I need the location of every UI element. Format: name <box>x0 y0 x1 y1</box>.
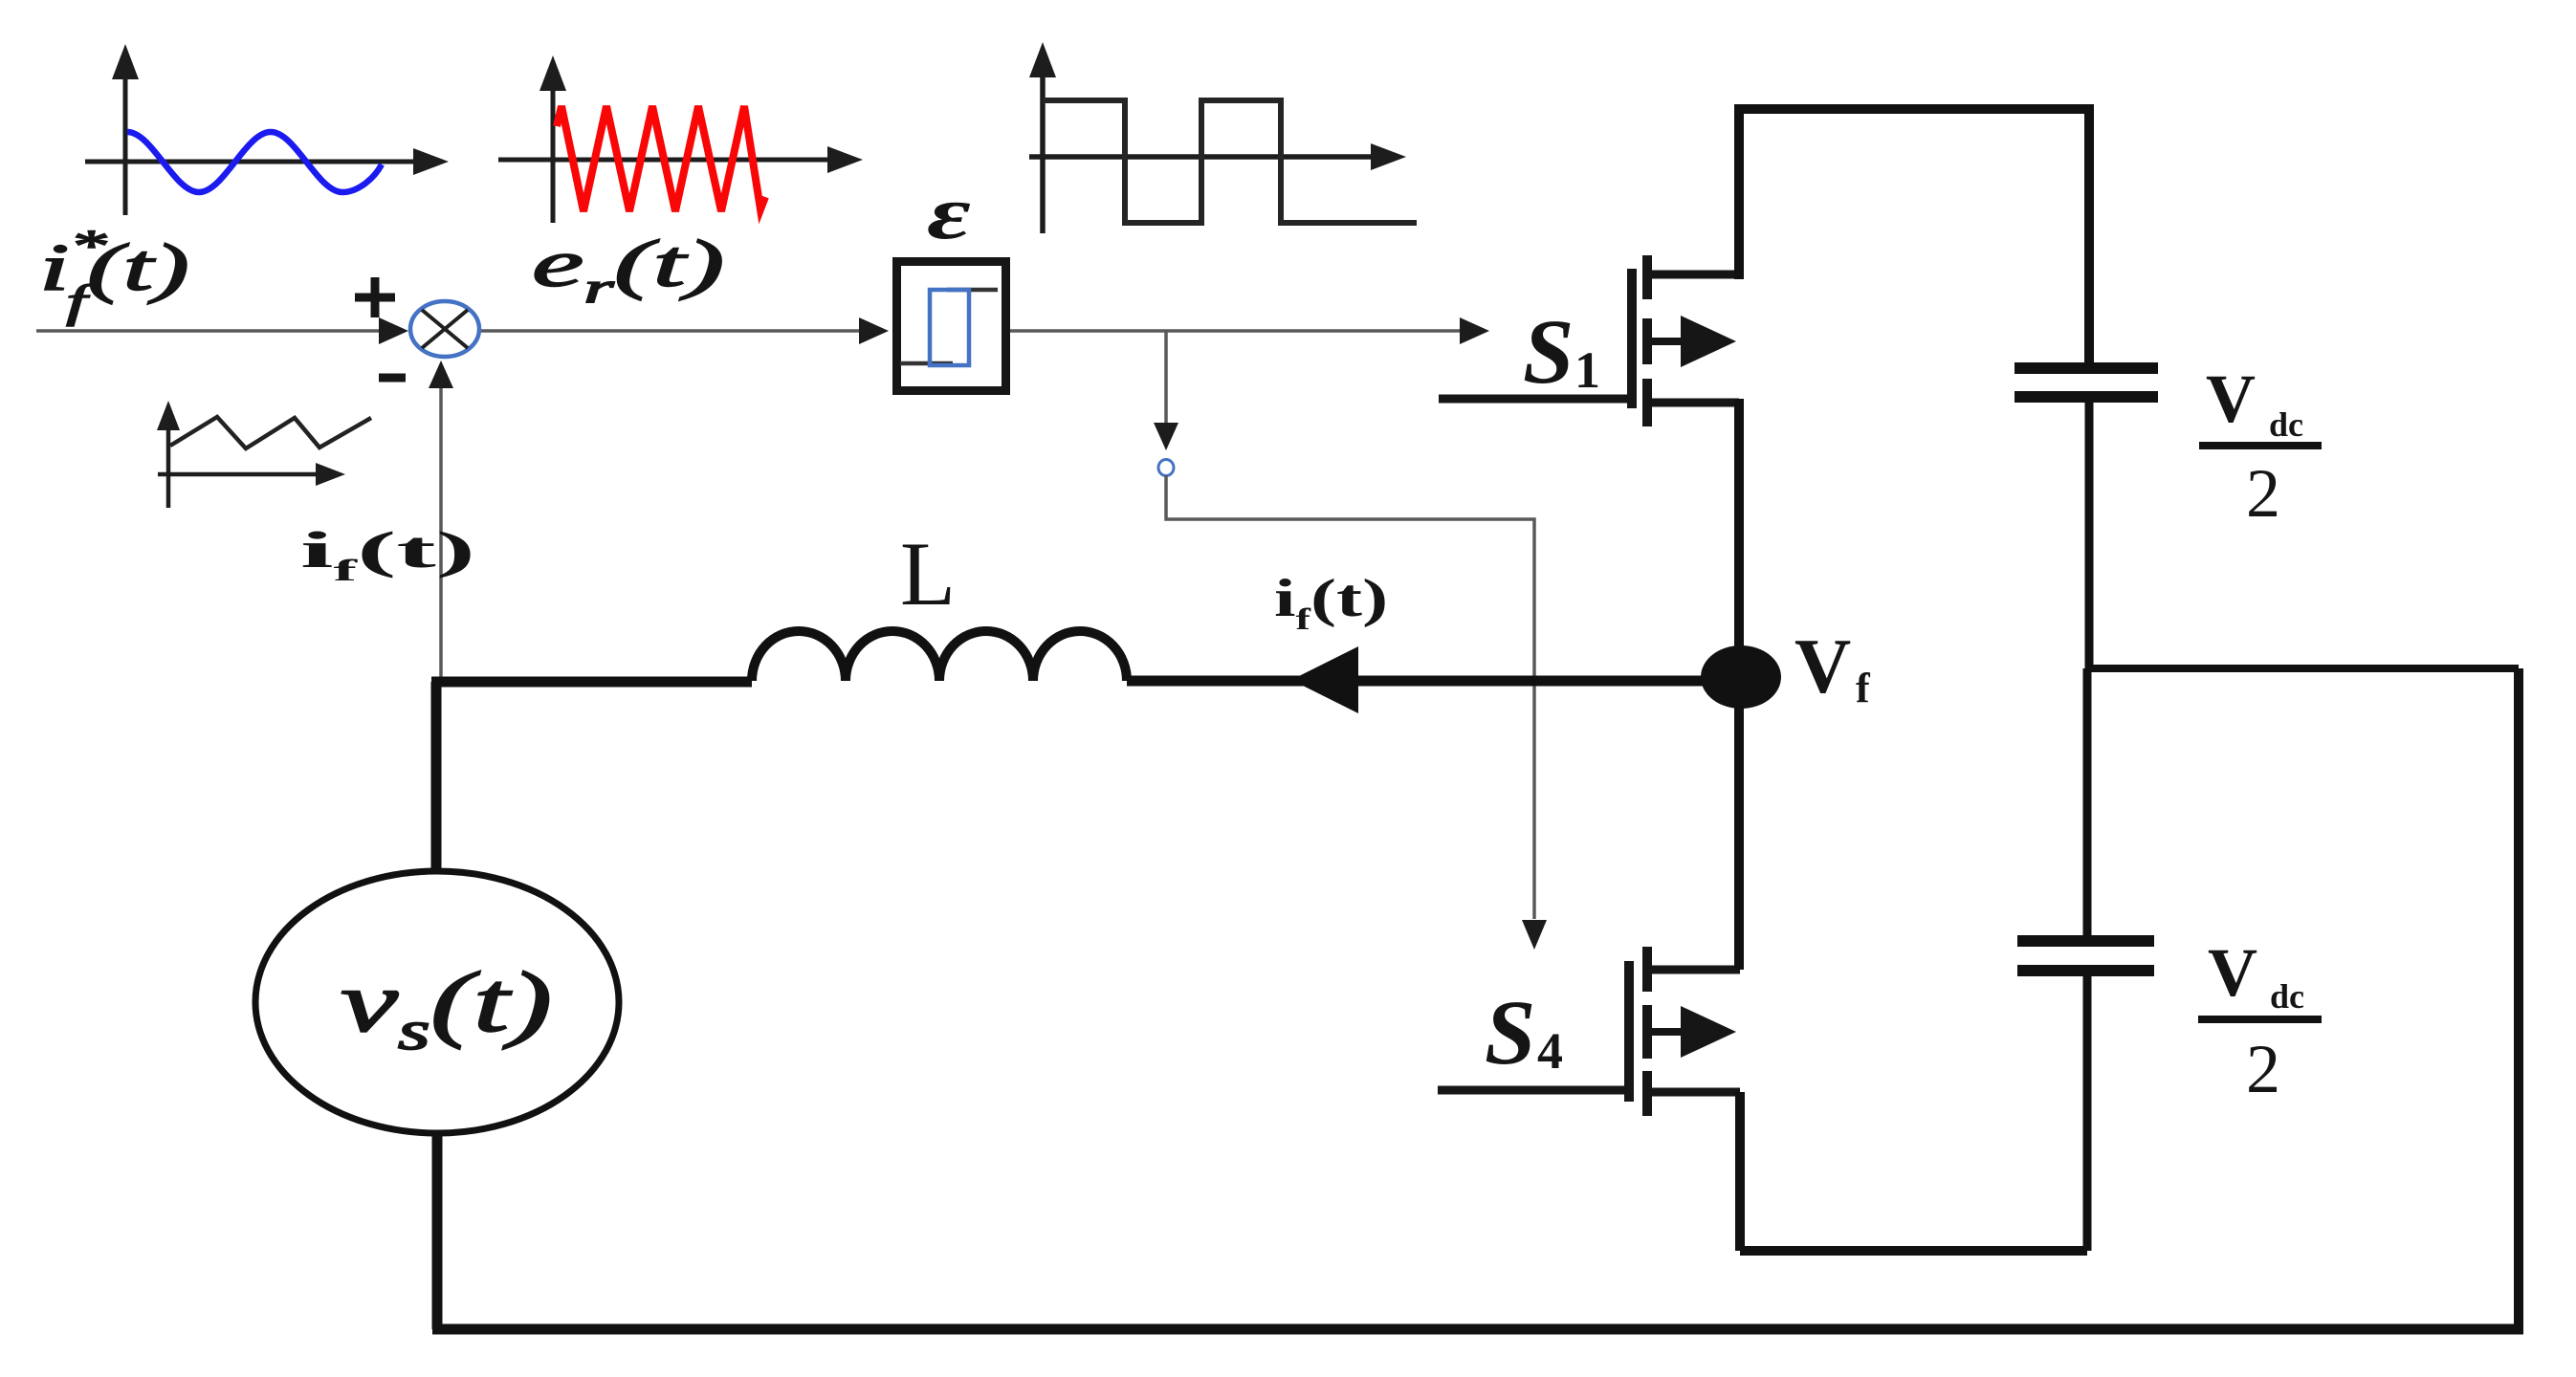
svg-text:ε: ε <box>927 170 971 255</box>
carrier square wave plot axes <box>1029 57 1392 233</box>
sine waveform i_f*(t) <box>127 132 382 192</box>
wire: error output from summing junction to hysteresis block <box>480 329 860 333</box>
label i_f(t) near inductor <box>1274 569 1388 636</box>
bottom inner wire S4 source to C2 <box>1740 1246 2087 1256</box>
svg-text:V: V <box>1794 623 1851 710</box>
wire below C2 <box>2083 971 2092 1251</box>
wire: node Vf down to S4 drain <box>1734 681 1744 970</box>
svg-text:f: f <box>1856 665 1871 711</box>
reference sine plot axes <box>85 59 433 215</box>
svg-text:L: L <box>900 523 956 624</box>
svg-text:1: 1 <box>1574 341 1600 399</box>
right rail down <box>2514 668 2523 1329</box>
square waveform <box>1043 100 1417 223</box>
minus sign <box>379 374 406 382</box>
hysteresis comparator block <box>897 262 1006 391</box>
label i_f(t) feedback <box>300 521 475 587</box>
svg-text:dc: dc <box>2270 977 2304 1016</box>
svg-text:S: S <box>1485 981 1535 1083</box>
wire: source bottom to bottom rail <box>432 1131 443 1329</box>
wire: S4 source down to bottom inner wire <box>1735 1092 1745 1251</box>
error waveform e_r(t) (red) <box>557 106 765 211</box>
transistor S1 <box>1439 255 1739 426</box>
node: inverter circle <box>1158 460 1174 476</box>
svg-text:i*f(t): i*f(t) <box>39 220 189 326</box>
source v_s(t) <box>255 871 619 1133</box>
current direction arrow i_f(t) <box>1291 646 1358 713</box>
svg-text:if(t): if(t) <box>1274 569 1388 636</box>
capacitor C2 <box>2017 935 2154 947</box>
svg-text:V: V <box>2206 361 2256 437</box>
svg-text:2: 2 <box>2246 455 2280 532</box>
wire: midpoint to capacitor C2 <box>2083 668 2092 941</box>
wire: S1 source down to node Vf <box>1734 399 1744 681</box>
wire: gate branch down toward inverter node <box>1164 331 1168 424</box>
svg-text:vs(t): vs(t) <box>341 954 552 1061</box>
wire below C1 to midpoint <box>2085 403 2094 668</box>
label e_r(t) <box>532 227 724 313</box>
main ac thick wire from junction to Vf <box>431 677 752 688</box>
svg-text:dc: dc <box>2269 405 2303 444</box>
wire: hysteresis output to gate of S1 <box>1010 329 1461 333</box>
capacitor C1 <box>2015 362 2158 374</box>
wire: reference input to summing junction <box>36 329 381 333</box>
summing junction <box>410 301 479 357</box>
node Vf <box>1701 645 1781 709</box>
bottom rail <box>432 1324 2523 1335</box>
wire: S1 drain to top rail and capacitor C1 <box>1739 109 2089 363</box>
label i_f*(t) <box>39 220 189 326</box>
svg-text:if(t): if(t) <box>300 521 475 587</box>
inductor L <box>752 631 1127 681</box>
wire: inverted gate signal routed to S4 <box>1166 475 1534 919</box>
svg-text:er(t): er(t) <box>532 227 724 313</box>
left riser to source <box>431 682 442 875</box>
plus sign <box>355 277 395 317</box>
label epsilon <box>927 170 971 255</box>
wire: capacitor midpoint to right rail <box>2089 665 2519 672</box>
label v_s(t) <box>341 954 552 1061</box>
sawtooth mini plot axes <box>158 426 319 508</box>
svg-text:V: V <box>2208 934 2257 1011</box>
wire: current feedback up to summing junction minus input <box>439 386 443 682</box>
error triangle plot axes <box>498 71 849 223</box>
transistor S4 <box>1438 947 1740 1116</box>
svg-text:4: 4 <box>1537 1022 1563 1080</box>
svg-text:S: S <box>1523 300 1574 403</box>
svg-text:2: 2 <box>2246 1031 2280 1107</box>
sawtooth waveform i_f(t) <box>170 417 371 448</box>
